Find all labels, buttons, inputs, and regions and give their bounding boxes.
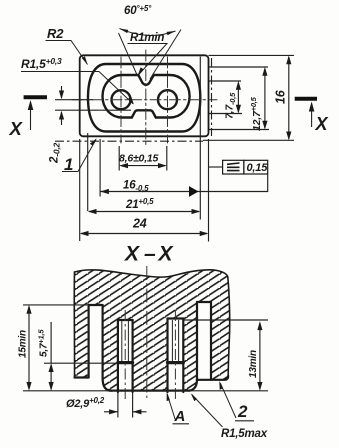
- svg-text:R1min: R1min: [130, 32, 164, 44]
- rect top edge extended right (16 dim): [209, 54, 295, 56]
- slot B step bar: [118, 361, 133, 364]
- dim line 12,7: [264, 69, 266, 129]
- arrowhead arc left: [120, 29, 129, 34]
- arrows 21: [88, 209, 97, 214]
- slot C centerline: [174, 310, 176, 402]
- left edge: [73, 272, 75, 378]
- datum filled triangle: [189, 186, 199, 197]
- section outline strokes: [74, 270, 229, 392]
- slot D floor and right tower bottom face: [197, 376, 228, 380]
- dim 5,7+1,5: [49, 363, 54, 372]
- ext 7,7 top: [209, 80, 241, 82]
- section cut mark X right: [295, 97, 317, 101]
- svg-text:13min: 13min: [248, 350, 259, 378]
- dim 15min left: [23, 305, 268, 391]
- arrows right dims: [236, 81, 241, 90]
- ext 16 bottom: [203, 139, 294, 141]
- long thin line under figure: [55, 140, 203, 142]
- 60 degree dimension arc: [120, 29, 176, 36]
- hatched block: [75, 270, 230, 391]
- middle bottom face: [112, 390, 190, 392]
- centerline middle vertical: [145, 50, 147, 147]
- svg-text:2: 2: [237, 402, 248, 421]
- body rectangle outline R2 corners: [80, 55, 209, 136]
- vertical extension lines below figure: [80, 57, 268, 242]
- slot C step bar: [168, 361, 184, 364]
- hole left: [112, 90, 131, 109]
- dim line 7,7: [237, 83, 239, 113]
- dim line 24: [81, 233, 207, 235]
- dim line 16 right: [288, 57, 290, 139]
- ext 12,7 top: [209, 66, 268, 68]
- outer recess contour (stadium): [88, 64, 200, 132]
- centerline hole left vertical: [120, 57, 122, 143]
- slot A right wall + fillet to middle bottom: [103, 305, 112, 391]
- svg-text:R1,5max: R1,5max: [221, 428, 268, 440]
- bottom left wall face: [75, 376, 89, 378]
- svg-text:24: 24: [132, 217, 147, 231]
- leader from tolerance frame left: [209, 166, 223, 168]
- slot B right wall: [132, 320, 134, 392]
- svg-text:X: X: [315, 114, 329, 134]
- svg-text:R2: R2: [47, 26, 64, 41]
- svg-text:16: 16: [274, 89, 288, 104]
- svg-text:–: –: [144, 243, 156, 266]
- slot B inner contact lines: [122, 320, 179, 361]
- arrows 24: [80, 231, 89, 236]
- dash-dot vertical right of figure: [211, 58, 213, 136]
- extension lines right side: [55, 55, 294, 141]
- arrow 16-0,5 left: [100, 189, 109, 194]
- centerline horizontal: [72, 99, 217, 101]
- svg-text:X: X: [158, 243, 175, 266]
- slot A left wall: [87, 305, 89, 378]
- ext 7,7 bottom: [209, 113, 242, 115]
- arrows 8,6: [119, 163, 128, 168]
- fillet R1,5 and slot D left wall: [190, 302, 198, 391]
- white slot cutouts: [90, 306, 102, 396]
- dim Ø2,9+0,2: [104, 393, 147, 418]
- slot B centerline: [124, 310, 126, 402]
- right edge wavy: [228, 277, 230, 376]
- tolerance frame with symmetry symbol and 0,15: [223, 160, 268, 174]
- arrowhead arc right: [167, 31, 176, 35]
- inner recess contour with V-notch and bottom hump: [103, 75, 190, 118]
- slot B left wall: [117, 320, 119, 392]
- dim 2-0,2 left side: [55, 86, 131, 125]
- V-notch right extension line: [150, 30, 181, 80]
- centerline hole right vertical: [167, 57, 169, 143]
- ext 12,7 bottom: [209, 129, 269, 131]
- slot C right wall: [182, 319, 184, 393]
- slot D right wall: [210, 302, 212, 380]
- slot C left wall: [166, 319, 168, 393]
- slot B top: [118, 319, 133, 321]
- dim line 16-0,5 + datum leader to frame: [100, 175, 268, 192]
- svg-text:0,15: 0,15: [247, 162, 269, 174]
- dim 13min right: [183, 320, 268, 389]
- dim line 8,6: [121, 165, 166, 167]
- slot C top: [168, 317, 184, 319]
- svg-text:8,6±0,15: 8,6±0,15: [119, 153, 159, 165]
- V-notch left extension line: [119, 33, 138, 76]
- slot A top: [89, 304, 103, 306]
- wavy top edge: [75, 270, 228, 277]
- svg-text:A: A: [174, 408, 186, 425]
- section cut mark X left: [24, 95, 47, 99]
- hole right: [158, 90, 177, 109]
- slot D top: [197, 301, 211, 303]
- section center line: [146, 266, 148, 398]
- slot C inner contact lines: [172, 320, 178, 361]
- svg-text:X: X: [9, 118, 24, 139]
- svg-text:15min: 15min: [18, 330, 29, 358]
- dim line 21+0,5: [89, 211, 199, 213]
- svg-text:X: X: [124, 243, 141, 266]
